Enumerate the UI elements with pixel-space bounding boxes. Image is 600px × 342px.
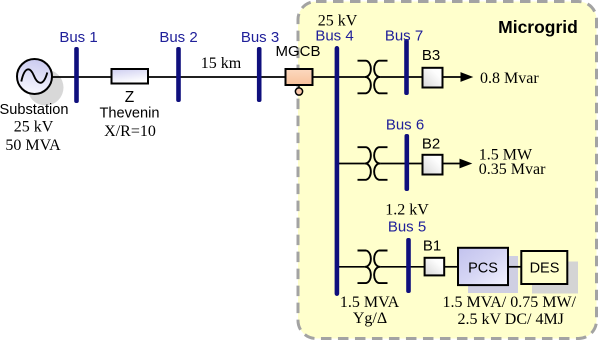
bus 4: [335, 46, 340, 296]
svg-text:X/R=10: X/R=10: [104, 123, 156, 140]
bus 2: [176, 47, 181, 102]
svg-text:Bus 7: Bus 7: [385, 28, 423, 45]
wire row3: B1 to PCS: [444, 266, 458, 268]
svg-text:Bus 4: Bus 4: [315, 28, 353, 45]
wire row1: MGCB to transformer T1: [312, 76, 365, 78]
svg-text:MGCB: MGCB: [276, 43, 321, 60]
svg-text:1.5 MVA/ 0.75 MW/: 1.5 MVA/ 0.75 MW/: [443, 294, 577, 311]
svg-text:B3: B3: [422, 47, 440, 64]
svg-text:25 kV: 25 kV: [14, 119, 54, 136]
svg-text:Microgrid: Microgrid: [498, 17, 578, 37]
transformer T3: [358, 251, 388, 284]
svg-text:Yg/Δ: Yg/Δ: [353, 310, 387, 327]
svg-text:Bus 6: Bus 6: [386, 117, 424, 134]
svg-text:Bus 1: Bus 1: [59, 29, 97, 46]
transformer T2: [358, 147, 388, 180]
svg-text:2.5 kV DC/ 4MJ: 2.5 kV DC/ 4MJ: [458, 311, 564, 328]
svg-text:0.8 Mvar: 0.8 Mvar: [480, 70, 539, 87]
wire row1: transformer T1 to breaker B3: [380, 76, 422, 78]
source G1 (substation generator): [17, 59, 52, 94]
breaker B1: [425, 258, 445, 276]
PCS shadow: [468, 256, 518, 293]
breaker B2: [423, 155, 443, 175]
bus 7: [404, 39, 409, 95]
svg-text:Bus 3: Bus 3: [241, 29, 279, 46]
breaker B3: [423, 68, 443, 88]
svg-text:15 km: 15 km: [201, 55, 242, 72]
svg-text:50 MVA: 50 MVA: [5, 137, 61, 154]
wire row2: transformer T2 to breaker B2: [380, 163, 422, 165]
svg-text:B1: B1: [423, 238, 441, 255]
wire row1: source to Z: [50, 76, 112, 78]
svg-text:PCS: PCS: [468, 261, 498, 277]
arrow row2 load: [443, 159, 473, 169]
bus 3: [257, 47, 262, 102]
svg-text:Bus 2: Bus 2: [159, 29, 197, 46]
arrow row1 load: [443, 72, 474, 82]
svg-text:B2: B2: [422, 136, 440, 153]
wire row3: transformer T3 to breaker B1: [380, 266, 424, 268]
wire row2: Bus4 to transformer T2: [337, 163, 365, 165]
breaker MGCB: [286, 69, 313, 95]
bus 5: [406, 238, 411, 293]
source shadow: [28, 70, 64, 106]
resistor Z (Thevenin impedance): [112, 69, 149, 84]
svg-text:1.2 kV: 1.2 kV: [385, 202, 429, 219]
bus 1: [74, 47, 79, 103]
svg-text:Substation: Substation: [0, 102, 68, 118]
svg-text:Bus 5: Bus 5: [388, 219, 426, 236]
transformer T1: [358, 61, 388, 94]
svg-text:1.5 MVA: 1.5 MVA: [340, 294, 400, 311]
storage DES: [521, 251, 567, 284]
svg-text:0.35 Mvar: 0.35 Mvar: [479, 161, 546, 178]
wire row1: Z to MGCB: [148, 76, 286, 78]
svg-text:Thevenin: Thevenin: [99, 106, 159, 122]
svg-text:Z: Z: [125, 89, 134, 106]
DES shadow: [532, 262, 578, 294]
microgrid region panel: [298, 2, 597, 339]
wire row3: Bus4 to transformer T3: [337, 266, 365, 268]
wire row3: PCS to DES: [508, 266, 521, 268]
bus 6: [405, 134, 410, 191]
converter PCS: [458, 248, 508, 285]
svg-text:DES: DES: [530, 261, 560, 277]
